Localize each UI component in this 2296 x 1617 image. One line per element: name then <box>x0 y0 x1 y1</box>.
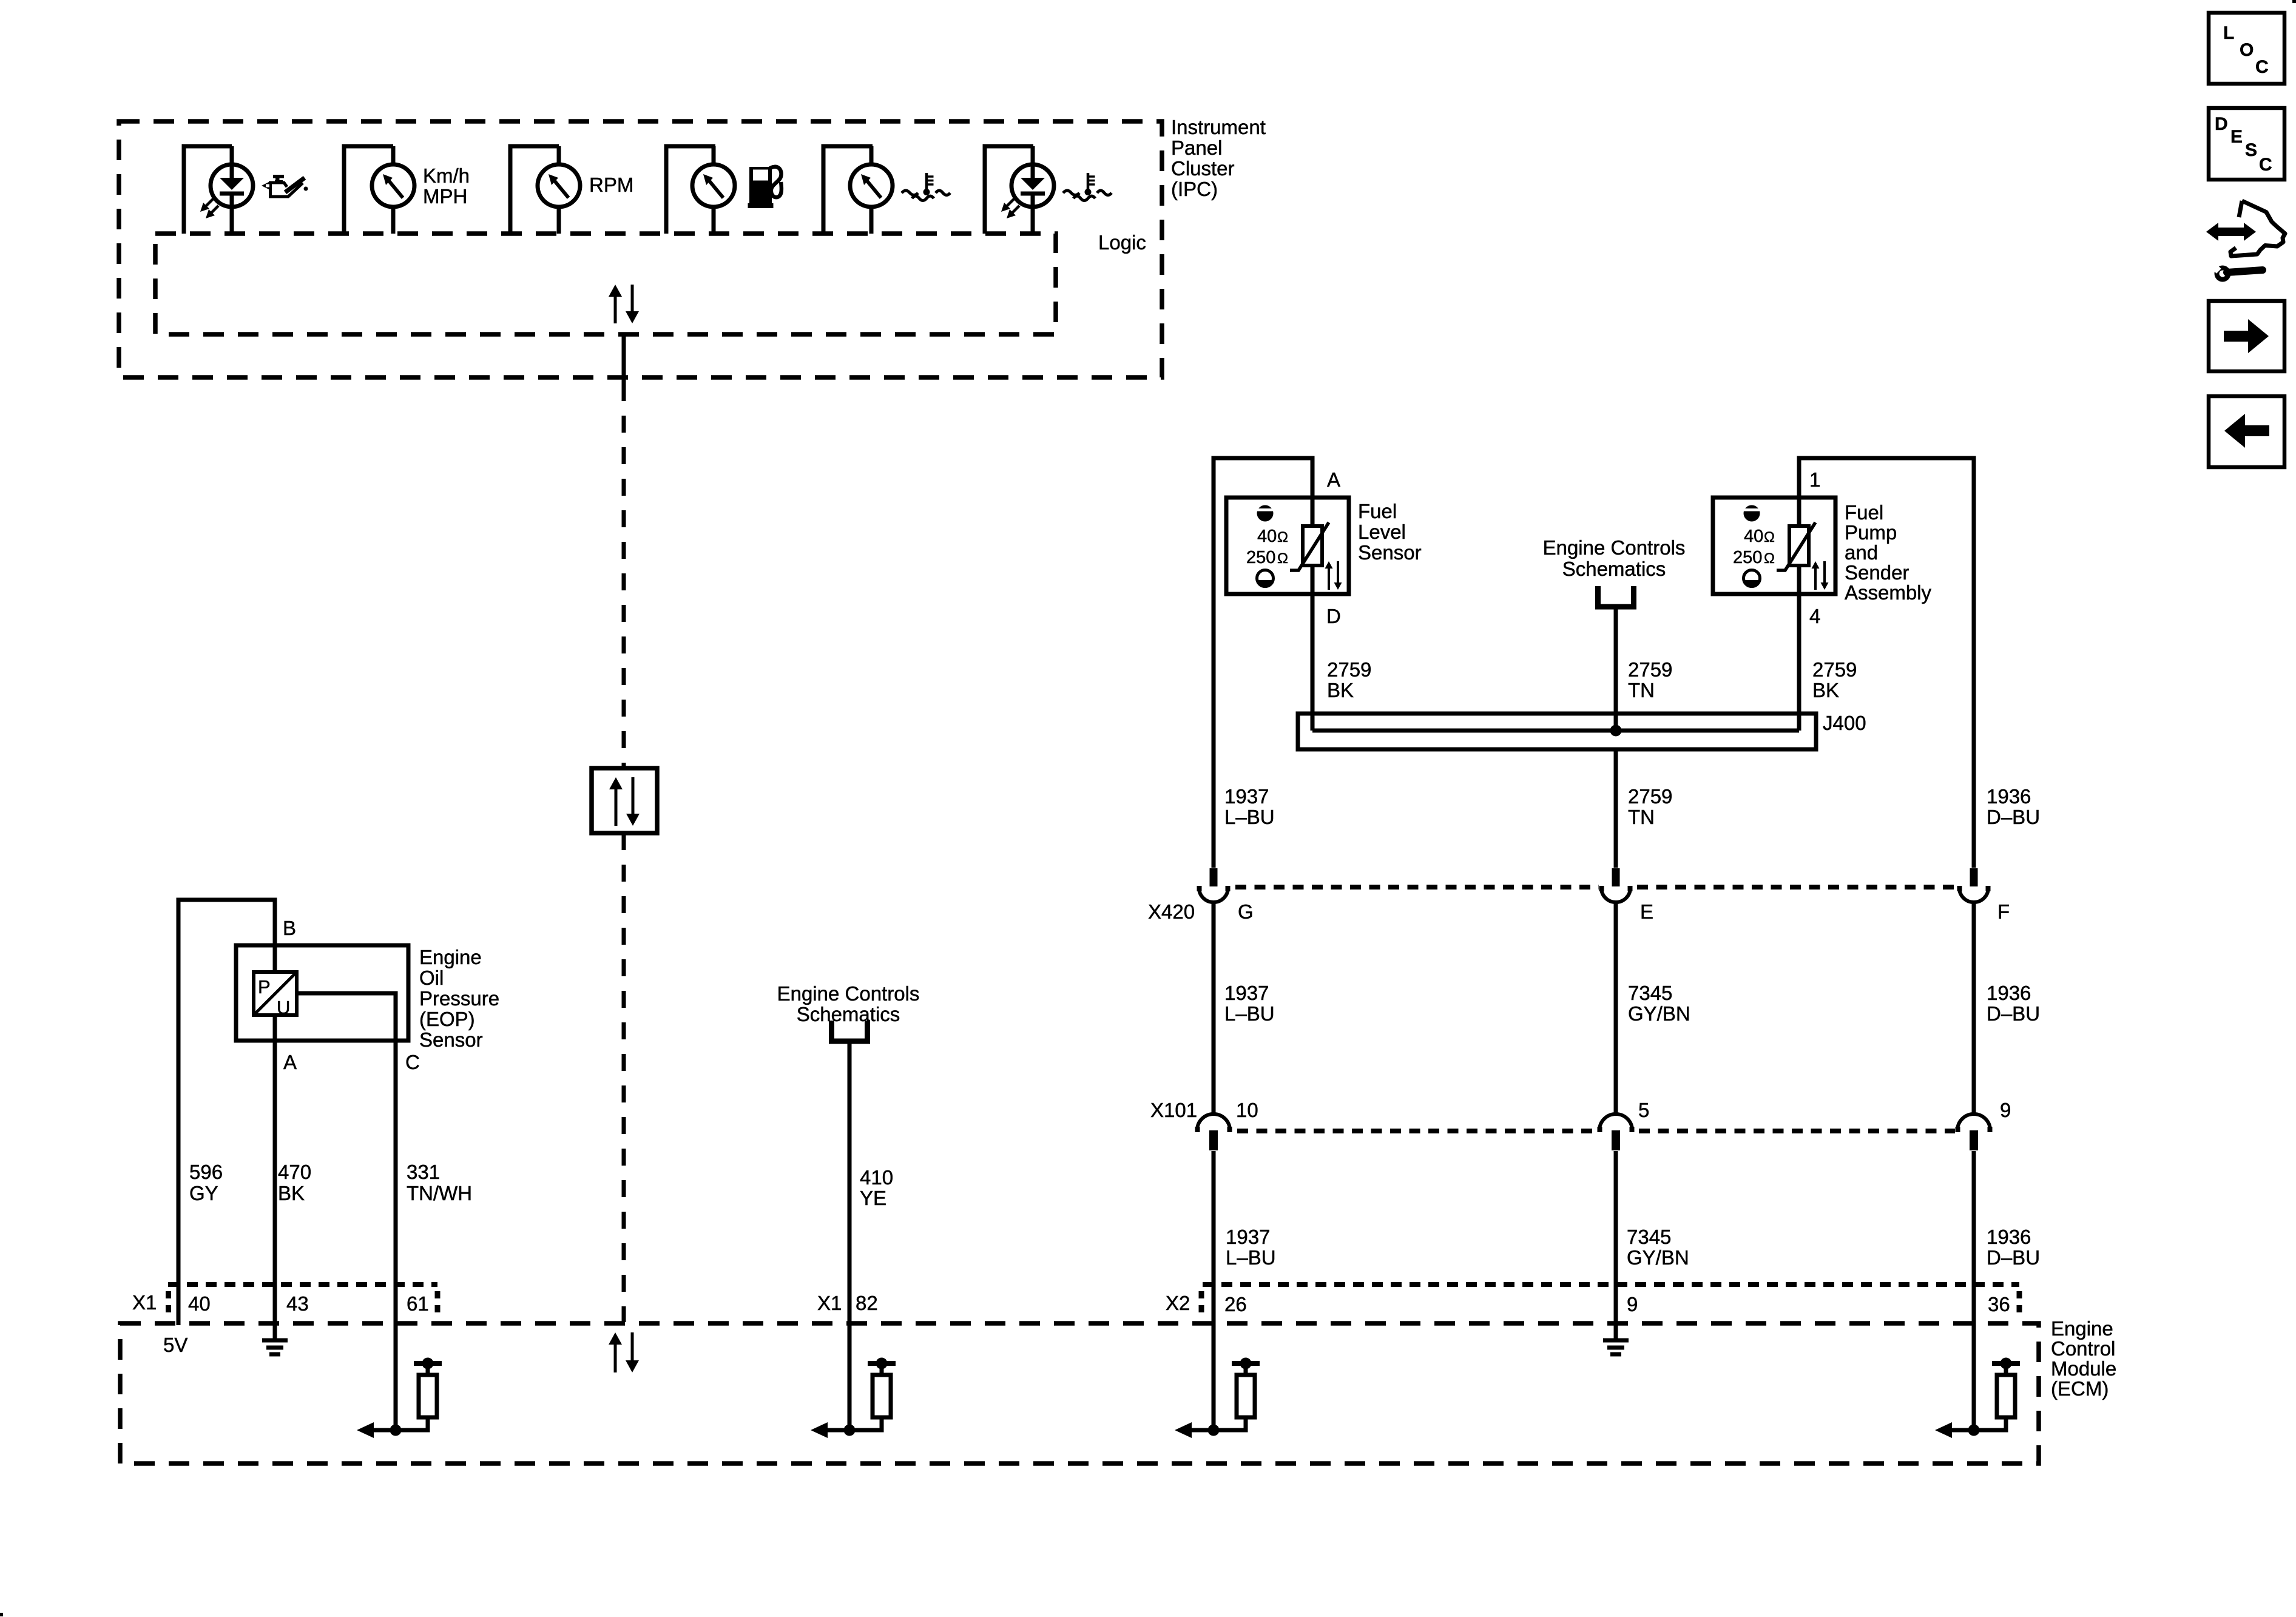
svg-text:L: L <box>2223 23 2234 43</box>
svg-text:YE: YE <box>860 1187 886 1209</box>
svg-text:26: 26 <box>1224 1293 1247 1315</box>
svg-text:Cluster: Cluster <box>1171 157 1235 180</box>
wire label 2759 TN (upper) <box>1628 658 1672 701</box>
gauge: fuel level <box>666 146 735 234</box>
pull-up resistor at ECM pin 36 <box>1992 1361 2020 1366</box>
svg-text:RPM: RPM <box>589 174 633 196</box>
X101 connector 5 <box>1599 1114 1632 1130</box>
gauge: tachometer <box>510 146 580 234</box>
EOP sensor label <box>419 946 499 1051</box>
svg-text:1936: 1936 <box>1987 982 2031 1004</box>
EOP sensor box <box>236 945 408 1041</box>
svg-text:L–BU: L–BU <box>1224 1002 1275 1025</box>
svg-text:Engine: Engine <box>419 946 482 968</box>
svg-text:U: U <box>277 997 290 1018</box>
wire label 410 YE <box>860 1166 893 1209</box>
svg-text:61: 61 <box>407 1292 429 1315</box>
Engine Controls Schematics reference (middle) <box>1543 536 1686 580</box>
svg-text:BK: BK <box>1327 679 1354 701</box>
svg-text:D–BU: D–BU <box>1987 1246 2040 1269</box>
junction dot at J400 <box>1610 725 1622 737</box>
serial data interface box <box>592 768 657 833</box>
wire 2759 TN below J400 <box>1614 749 1618 868</box>
svg-text:Ω: Ω <box>1764 550 1775 567</box>
svg-text:Engine: Engine <box>2051 1317 2113 1340</box>
wire: serial data dashed segment to interface box <box>622 384 626 768</box>
svg-text:P: P <box>258 976 271 998</box>
wire: serial data dashed segment to ECM <box>622 833 626 1322</box>
svg-text:Oil: Oil <box>419 967 444 989</box>
svg-text:4: 4 <box>1809 605 1820 627</box>
X420 labels <box>1148 900 2010 923</box>
pull-up resistor at ECM pin 26 <box>1232 1361 1260 1366</box>
back arrow icon box <box>2209 396 2284 467</box>
wire label 596 GY <box>189 1161 223 1204</box>
Fuel Pump and Sender Assembly label <box>1845 501 1932 604</box>
svg-text:G: G <box>1238 900 1254 923</box>
svg-text:250: 250 <box>1246 548 1275 567</box>
DESC icon box <box>2209 108 2284 180</box>
svg-text:B: B <box>283 917 296 939</box>
X101 labels <box>1150 1099 2011 1121</box>
svg-text:43: 43 <box>286 1292 309 1315</box>
wire pin A/D through sender <box>1311 565 1315 731</box>
svg-text:2759: 2759 <box>1628 785 1672 808</box>
svg-text:Schematics: Schematics <box>797 1003 900 1025</box>
X420 connector E <box>1612 868 1620 886</box>
svg-text:Pressure: Pressure <box>419 987 499 1010</box>
Engine Controls Schematics reference (column 2) <box>777 982 920 1025</box>
svg-text:2759: 2759 <box>1812 658 1857 681</box>
serial data up/down arrows <box>609 285 639 323</box>
Fuel Pump sender inner box <box>1713 498 1835 594</box>
ground at ECM pin 9 <box>1603 1338 1629 1343</box>
svg-text:Ω: Ω <box>1764 529 1775 545</box>
svg-text:D–BU: D–BU <box>1987 806 2040 828</box>
svg-text:Sensor: Sensor <box>419 1028 483 1051</box>
svg-text:D: D <box>1326 605 1341 627</box>
svg-text:10: 10 <box>1236 1099 1258 1121</box>
indicator lamp: coolant temperature warning <box>985 146 1054 234</box>
svg-text:Pump: Pump <box>1845 521 1897 544</box>
svg-text:Assembly: Assembly <box>1845 581 1932 604</box>
svg-text:Logic: Logic <box>1098 231 1146 254</box>
Fuel Level Sensor label <box>1358 500 1422 564</box>
svg-text:9: 9 <box>2000 1099 2011 1121</box>
svg-text:A: A <box>1327 468 1340 491</box>
wire 1936 D-BU segment X101.9 to ECM pin 36 <box>1972 1151 1976 1430</box>
svg-text:40: 40 <box>1744 527 1763 546</box>
svg-text:E: E <box>2230 127 2243 147</box>
svg-text:410: 410 <box>860 1166 893 1189</box>
wire label 1936 D-BU (middle row) <box>1987 982 2040 1025</box>
svg-text:Fuel: Fuel <box>1358 500 1397 522</box>
wire label 331 TN/WH <box>407 1161 472 1204</box>
label Km/h MPH <box>423 164 470 208</box>
svg-text:1937: 1937 <box>1226 1226 1270 1248</box>
wire label 1937 L-BU (lower row) <box>1226 1226 1276 1269</box>
svg-text:GY: GY <box>189 1182 218 1204</box>
wire label 470 BK <box>278 1161 311 1204</box>
X420 connector line <box>1235 885 1599 890</box>
indicator lamp: oil pressure warning <box>184 146 253 234</box>
IPC box (Instrument Panel Cluster) <box>119 121 1162 377</box>
svg-text:X1: X1 <box>817 1292 842 1314</box>
wire 7345 GY/BN segment X420.E to X101.5 <box>1614 900 1618 1115</box>
svg-text:1937: 1937 <box>1224 785 1269 808</box>
X420 connector G <box>1210 868 1218 886</box>
svg-text:X1: X1 <box>132 1291 157 1314</box>
pull-up resistor at ECM pin 61 <box>414 1361 442 1366</box>
IPC label <box>1171 116 1266 200</box>
J400 bus bar <box>1312 729 1799 733</box>
svg-text:MPH: MPH <box>423 185 467 208</box>
wire label 2759 BK (left) <box>1327 658 1371 701</box>
EOP P/U transducer square <box>254 972 297 1018</box>
forward arrow icon box <box>2209 301 2284 371</box>
X101 connector 9 <box>1957 1114 1990 1130</box>
wire label 2759 BK (right) <box>1812 658 1857 701</box>
svg-text:A: A <box>283 1051 297 1073</box>
X101 connector line <box>1237 1129 1597 1133</box>
svg-text:36: 36 <box>1988 1293 2010 1315</box>
svg-text:2759: 2759 <box>1327 658 1371 681</box>
svg-text:5V: 5V <box>163 1334 187 1356</box>
Fuel Pump and Sender Assembly loop wire <box>1799 458 1974 868</box>
wire 1936 D-BU segment X420.F to X101.9 <box>1972 900 1976 1115</box>
svg-text:C: C <box>405 1051 420 1073</box>
svg-text:Level: Level <box>1358 521 1406 543</box>
svg-text:Control: Control <box>2051 1337 2115 1360</box>
wire label 7345 GY/BN (middle row) <box>1628 982 1690 1025</box>
svg-text:Panel: Panel <box>1171 137 1222 159</box>
svg-text:7345: 7345 <box>1627 1226 1671 1248</box>
svg-text:L–BU: L–BU <box>1226 1246 1276 1269</box>
gauge: coolant temperature <box>823 146 893 234</box>
connector view icon (car outline with arrow and wrench) <box>2206 201 2285 282</box>
svg-text:40: 40 <box>188 1292 211 1315</box>
svg-text:L–BU: L–BU <box>1224 806 1275 828</box>
oil can icon <box>262 175 308 197</box>
serial data up/down arrows <box>609 1332 639 1372</box>
svg-text:BK: BK <box>1812 679 1839 701</box>
svg-text:Instrument: Instrument <box>1171 116 1266 138</box>
svg-text:J400: J400 <box>1823 712 1866 734</box>
svg-text:F: F <box>1997 900 2010 923</box>
off-page connector bracket (middle) <box>1598 586 1634 607</box>
X101 connector 10 <box>1197 1114 1230 1130</box>
svg-text:X420: X420 <box>1148 900 1195 923</box>
svg-text:82: 82 <box>856 1292 878 1314</box>
coolant temp icon 1 <box>902 173 950 201</box>
wire pin 1/4 through sender <box>1797 565 1801 731</box>
corner registration mark bottom-left <box>0 1613 3 1616</box>
svg-text:D: D <box>2215 114 2228 134</box>
svg-text:(IPC): (IPC) <box>1171 178 1218 200</box>
svg-text:470: 470 <box>278 1161 311 1183</box>
ECM box (Engine Control Module) <box>120 1323 2039 1463</box>
pull-up resistor at ECM pin 82 <box>868 1361 896 1366</box>
svg-text:Km/h: Km/h <box>423 164 470 187</box>
J400 splice package <box>1298 714 1816 749</box>
svg-text:Engine Controls: Engine Controls <box>777 982 920 1005</box>
gauge: speedometer <box>344 146 414 234</box>
svg-text:X2: X2 <box>1166 1292 1190 1314</box>
serial data up/down arrows <box>609 777 640 826</box>
wire label 7345 GY/BN (lower row) <box>1627 1226 1689 1269</box>
wire 1937 L-BU segment X101.10 to ECM pin 26 <box>1212 1151 1216 1430</box>
X1 label (col2) <box>817 1292 878 1314</box>
svg-text:Engine Controls: Engine Controls <box>1543 536 1686 559</box>
svg-text:Ω: Ω <box>1277 529 1288 545</box>
X1 connector bracket <box>168 1284 437 1314</box>
svg-text:(ECM): (ECM) <box>2051 1377 2109 1400</box>
svg-text:(EOP): (EOP) <box>419 1008 475 1030</box>
svg-text:Ω: Ω <box>1277 550 1288 567</box>
X2 connector bracket <box>1201 1284 2019 1314</box>
svg-text:Sensor: Sensor <box>1358 541 1422 564</box>
svg-text:Schematics: Schematics <box>1562 558 1666 580</box>
wire 1937 L-BU segment X420.G to X101.10 <box>1212 900 1216 1115</box>
svg-text:9: 9 <box>1627 1293 1638 1315</box>
svg-text:1: 1 <box>1809 468 1820 491</box>
coolant temp icon 2 <box>1063 173 1112 201</box>
svg-text:D–BU: D–BU <box>1987 1002 2040 1025</box>
wire label 1937 L-BU (upper row) <box>1224 785 1275 828</box>
wire 7345 GY/BN segment X101.5 to ECM pin 9 <box>1614 1151 1618 1338</box>
wire A from P/U to ground <box>273 1015 277 1338</box>
svg-text:7345: 7345 <box>1628 982 1672 1004</box>
svg-text:and: and <box>1845 541 1878 564</box>
off-page connector bracket (column 2) <box>832 1021 868 1041</box>
X2 labels <box>1166 1292 2010 1315</box>
svg-text:Fuel: Fuel <box>1845 501 1883 524</box>
svg-text:40: 40 <box>1257 527 1277 546</box>
Fuel Level Sensor loop wire <box>1214 458 1312 868</box>
ECM label <box>2051 1317 2116 1400</box>
wire C from P/U right to pin 61 <box>297 993 396 1430</box>
svg-text:1936: 1936 <box>1987 785 2031 808</box>
wire label 1936 D-BU (lower row) <box>1987 1226 2040 1269</box>
svg-text:C: C <box>2259 155 2272 175</box>
svg-text:1936: 1936 <box>1987 1226 2031 1248</box>
corner registration mark top-right <box>2292 0 2296 3</box>
wire 2759 TN from bracket to J400 <box>1614 607 1618 731</box>
wire label 1936 D-BU (upper row) <box>1987 785 2040 828</box>
svg-text:X101: X101 <box>1150 1099 1197 1121</box>
wire label 2759 TN (below J400) <box>1628 785 1672 828</box>
svg-text:Sender: Sender <box>1845 561 1909 584</box>
wire 410 YE <box>848 1041 852 1430</box>
Logic box <box>155 234 1056 334</box>
wire label 1937 L-BU (middle row) <box>1224 982 1275 1025</box>
LOC icon box <box>2209 13 2284 84</box>
EOP sensor loop wire (596 GY to pin B) <box>178 900 275 1325</box>
svg-text:BK: BK <box>278 1182 305 1204</box>
svg-text:TN/WH: TN/WH <box>407 1182 472 1204</box>
svg-text:TN: TN <box>1628 679 1655 701</box>
svg-text:S: S <box>2245 140 2257 160</box>
Fuel Level Sensor inner box <box>1226 498 1349 594</box>
ground at ECM pin 43 <box>262 1338 288 1343</box>
svg-text:C: C <box>2255 57 2269 77</box>
svg-text:2759: 2759 <box>1628 658 1672 681</box>
svg-text:331: 331 <box>407 1161 440 1183</box>
X420 connector F <box>1970 868 1978 886</box>
svg-text:596: 596 <box>189 1161 223 1183</box>
svg-text:Module: Module <box>2051 1357 2116 1380</box>
svg-text:E: E <box>1640 900 1653 923</box>
X1 labels <box>132 1291 429 1315</box>
svg-text:5: 5 <box>1638 1099 1649 1121</box>
svg-text:TN: TN <box>1628 806 1655 828</box>
svg-text:GY/BN: GY/BN <box>1627 1246 1689 1269</box>
svg-text:O: O <box>2240 40 2254 60</box>
fuel pump icon <box>748 167 782 208</box>
svg-text:GY/BN: GY/BN <box>1628 1002 1690 1025</box>
svg-text:250: 250 <box>1733 548 1762 567</box>
wire: serial data from IPC Logic (solid segment) <box>622 334 626 384</box>
svg-text:1937: 1937 <box>1224 982 1269 1004</box>
